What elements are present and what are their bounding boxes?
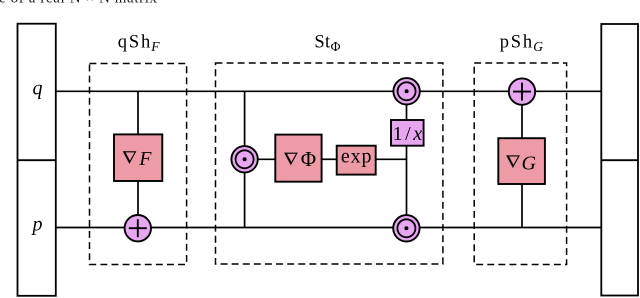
dashed box St <box>216 63 443 264</box>
svg-text:pSh: pSh <box>500 32 532 52</box>
wire q <box>56 90 602 92</box>
gate nabla-G <box>498 138 545 184</box>
wire vertical left (St) <box>244 91 246 227</box>
wire nabla-Phi to exp <box>322 158 337 160</box>
plus-circle on p wire (qShF) <box>125 215 151 241</box>
right register box <box>601 24 638 296</box>
dashed box pShG <box>474 63 566 265</box>
gate exp <box>337 146 376 175</box>
wire vertical pShG <box>521 92 523 228</box>
svg-text:G: G <box>533 39 543 54</box>
dashed box qShF <box>90 64 187 265</box>
svg-text:q: q <box>33 77 43 99</box>
wire odot to nabla-Phi <box>258 158 276 160</box>
svg-text:qSh: qSh <box>118 32 150 52</box>
svg-text:exp: exp <box>341 146 372 168</box>
svg-text:St: St <box>314 32 331 52</box>
wire p <box>56 227 602 229</box>
gate nabla-F <box>114 134 162 181</box>
svg-text:Φ: Φ <box>331 39 341 54</box>
left register box <box>18 24 56 296</box>
odot on q wire <box>393 78 419 104</box>
svg-text:F: F <box>150 39 160 54</box>
svg-text:Φ: Φ <box>301 147 316 171</box>
svg-text:1/x: 1/x <box>393 123 423 145</box>
odot control mid-left <box>231 146 257 172</box>
wire vertical qShF <box>137 91 139 228</box>
gate 1/x <box>391 120 424 146</box>
svg-text:F: F <box>138 148 152 170</box>
svg-text:e of a real N × N matrix: e of a real N × N matrix <box>0 0 158 6</box>
wire vertical right (St) <box>406 91 408 228</box>
svg-text:p: p <box>31 214 43 236</box>
plus-circle on q wire (pShG) <box>509 78 535 104</box>
svg-text:G: G <box>522 152 537 174</box>
odot on p wire <box>393 215 419 241</box>
wire exp to vertical <box>376 158 407 160</box>
gate nabla-Phi <box>275 135 321 182</box>
